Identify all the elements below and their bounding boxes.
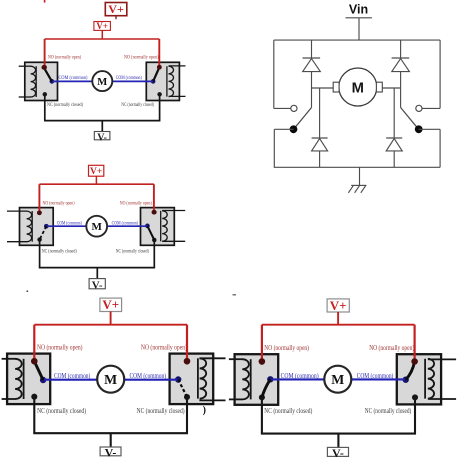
svg-text:V+: V+ (96, 21, 108, 31)
wire V+ to K8 NO (414, 325, 416, 362)
relay K8 switch arm (406, 362, 415, 380)
wire to V- D3 (110, 433, 112, 447)
wire V+ drop D1 (101, 30, 103, 39)
Vin terminal bar (346, 17, 372, 19)
motor M2 (86, 216, 107, 237)
wire K1 NC down (44, 94, 46, 120)
wire motor M3 to K6 COM (124, 379, 177, 381)
label K6 COM (130, 373, 167, 380)
svg-text:NO (normally open): NO (normally open) (48, 54, 81, 61)
relay K2 NC contact (157, 92, 161, 96)
svg-text:NC (normally closed): NC (normally closed) (121, 101, 154, 108)
relay K7 COM contact (267, 376, 273, 382)
node Vin terminal (349, 3, 368, 17)
wire bottom rail D4 (261, 433, 416, 435)
motor M5 right brush (376, 82, 382, 92)
wire V+ to K7 NO (261, 325, 263, 362)
diode D4 (lower right) (386, 138, 402, 151)
svg-text:COM (common): COM (common) (59, 74, 88, 81)
wire K4 NC down (153, 240, 155, 268)
relay K6 switch arm (178, 380, 187, 398)
svg-text:COM (common): COM (common) (116, 74, 142, 81)
svg-text:M: M (331, 372, 344, 387)
wire top rail D1 (45, 38, 160, 40)
relay K2 switch arm (153, 67, 159, 81)
label K5 NC (37, 408, 86, 415)
svg-text:V+: V+ (330, 298, 347, 313)
relay K8 coil (425, 359, 456, 399)
wire diode D3 to bottom rail (319, 151, 321, 167)
relay K5 coil (2, 359, 24, 399)
svg-text:V+: V+ (108, 2, 124, 16)
relay K1 switch arm (44, 67, 52, 81)
label K8 NO (369, 345, 414, 352)
wire V+ drop D4 (337, 312, 339, 325)
label K8 COM (357, 373, 394, 380)
relay K8 COM contact (403, 377, 409, 383)
relay K2 body (146, 62, 179, 100)
relay K6 COM contact (175, 376, 181, 382)
relay K5 NO contact (31, 358, 37, 364)
wire V+ to K2 NO (158, 39, 160, 67)
relay K5 switch arm (34, 361, 43, 380)
svg-text:NO (normally open): NO (normally open) (43, 200, 75, 207)
relay K8 NO contact (over wire) (411, 358, 417, 364)
relay K7 switch arm (262, 379, 270, 397)
svg-text:M: M (97, 77, 107, 88)
supply label V- D3 (100, 446, 121, 460)
relay K2 COM contact (151, 79, 156, 84)
label K4 NO (120, 200, 152, 207)
svg-text:V-: V- (92, 279, 103, 291)
relay K4 COM contact (145, 224, 150, 229)
wire V+ to K6 NO (186, 325, 188, 362)
wire diode D2 to node B (400, 72, 402, 108)
relay K1 COM contact (50, 79, 55, 84)
diode D4 branch (lower right) (393, 88, 395, 138)
wire K7 NC down (261, 397, 263, 433)
svg-text:NC (normally closed): NC (normally closed) (42, 248, 77, 255)
relay K7 NC contact (259, 394, 265, 400)
switch S1 arm (295, 108, 312, 129)
relay K6 NO contact (over wire) (184, 358, 190, 364)
label K4 NC (116, 248, 149, 255)
relay K1 NC contact (43, 92, 47, 96)
relay K1 body (25, 62, 58, 100)
svg-text:V-: V- (97, 132, 107, 143)
wire V+ drop D2 (95, 176, 97, 184)
wire V+ drop D3 (110, 312, 112, 325)
wire K2 NC down (159, 94, 161, 120)
wire left outer upper (274, 40, 291, 108)
wire K3 COM to motor M2 (47, 225, 86, 227)
label K2 COM (116, 74, 142, 81)
wire S2 lower contact to right outer (419, 129, 440, 167)
wire V+ to K1 NO (44, 39, 46, 67)
wire K5 COM to motor M3 (44, 379, 97, 381)
wire motor right terminal to node B (382, 87, 400, 89)
svg-text:NO (normally open): NO (normally open) (120, 200, 152, 207)
diode D1 (upper left) (303, 58, 321, 72)
relay K3 switch arm (40, 226, 47, 239)
relay K8 NO contact (411, 358, 417, 364)
relay K3 NO contact (over wire) (37, 210, 42, 215)
wire top rail D2 (39, 183, 153, 185)
label K5 NO (37, 345, 83, 352)
supply label V+ D4 (327, 298, 349, 313)
wire right inner upper (400, 40, 402, 58)
motor M5 (339, 68, 377, 106)
tiny crop speck (26, 290, 28, 292)
relay K7 NO contact (259, 358, 265, 364)
relay K4 NO contact (152, 210, 157, 215)
wire bottom rail D2 (39, 267, 155, 269)
wire K3 NC down (39, 240, 41, 268)
relay K8 NC contact (412, 394, 418, 400)
wire stub below outer V+ (115, 16, 117, 20)
relay K6 body (170, 354, 214, 405)
relay K7 NO contact (over wire) (259, 358, 265, 364)
svg-text:M: M (104, 372, 117, 387)
wire to V- D2 (96, 268, 98, 279)
relay K7 coil (229, 359, 251, 399)
supply label V- D2 (89, 279, 105, 292)
relay K5 COM contact (40, 377, 46, 383)
label K2 NO (124, 54, 159, 61)
svg-text:NO (normally open): NO (normally open) (124, 54, 159, 61)
relay K6 NC contact (184, 394, 190, 400)
relay K1 coil (19, 66, 37, 97)
wire K1 COM to motor M1 (53, 80, 93, 82)
relay K4 body (141, 208, 175, 246)
relay K4 coil (161, 211, 186, 242)
label K3 NC (42, 248, 77, 255)
motor M4 (324, 366, 351, 393)
label K4 COM (112, 220, 139, 227)
wire to V- D4 (337, 434, 339, 448)
svg-text:NC (normally closed): NC (normally closed) (47, 101, 83, 108)
svg-text:NO (normally open): NO (normally open) (369, 345, 414, 352)
motor M5 left brush (333, 82, 339, 92)
wire K8 NC down (414, 397, 416, 433)
label K1 NO (48, 54, 81, 61)
svg-text:NC (normally closed): NC (normally closed) (264, 408, 312, 415)
wire top rail D5 (274, 39, 440, 41)
label K8 NC (365, 408, 412, 415)
wire right outer upper (422, 40, 440, 108)
label K2 NC (121, 101, 154, 108)
wire left inner upper (311, 40, 313, 58)
wire K6 NC down (186, 397, 188, 433)
label K1 COM (59, 74, 88, 81)
wire Vin down (358, 18, 360, 40)
relay K3 coil (7, 211, 32, 242)
wire diode D1 to motor node A (311, 72, 313, 108)
svg-text:V-: V- (105, 446, 117, 460)
svg-text:M: M (92, 221, 103, 233)
relay K1 NO contact (over wire) (42, 65, 47, 70)
wire S1 lower contact to left outer (274, 129, 293, 167)
node V+ terminal (outer) (105, 2, 127, 16)
svg-text:NC (normally closed): NC (normally closed) (116, 248, 149, 255)
wire V+ to K5 NO (33, 325, 35, 362)
svg-text:NO (normally open): NO (normally open) (264, 345, 309, 352)
relay K8 body (397, 354, 441, 404)
switch S2 lower contact (closed) (415, 125, 423, 133)
ground (348, 185, 366, 192)
label K7 NO (264, 345, 309, 352)
wire K7 COM to motor M4 (271, 378, 324, 380)
supply label V+ D2 (89, 165, 104, 177)
diode D3 (lower left) (312, 138, 328, 151)
diode D2 (upper right) (392, 58, 410, 72)
wire bottom rail D1 (44, 120, 160, 122)
wire to ground (359, 167, 361, 185)
label K3 NO (43, 200, 75, 207)
svg-text:V-: V- (332, 446, 344, 460)
tiny crop mark D4 (233, 294, 237, 296)
svg-text:NO (normally open): NO (normally open) (141, 345, 187, 352)
wire K5 NC down (33, 397, 35, 434)
supply label V- D1 (94, 132, 110, 144)
relay K2 coil (167, 66, 186, 97)
relay K5 NO contact (over wire) (31, 358, 37, 364)
relay K4 NO contact (over wire) (152, 210, 157, 215)
relay K4 NC contact (152, 238, 156, 242)
label K7 COM (281, 373, 319, 380)
wire V+ to K4 NO (153, 184, 155, 212)
svg-text:NC (normally closed): NC (normally closed) (137, 408, 185, 415)
wire top rail D4 (262, 324, 415, 326)
svg-text:): ) (203, 405, 206, 416)
relay K3 NC contact (37, 237, 41, 241)
wire V+ to K3 NO (38, 184, 40, 212)
switch S1 lower contact (closed) (290, 125, 298, 133)
label K5 COM (54, 373, 90, 380)
switch S1 upper contact (291, 105, 297, 111)
relay K3 COM contact (44, 224, 49, 229)
label K7 NC (264, 408, 312, 415)
relay K4 switch arm (147, 226, 154, 240)
tiny red crop mark top-left (44, 0, 46, 3)
svg-text:Vin: Vin (349, 3, 368, 17)
label K3 COM (57, 220, 82, 227)
stray parenthesis mark (203, 405, 206, 416)
label K1 NC (47, 101, 83, 108)
relay K1 NO contact (41, 65, 46, 70)
wire motor M2 to K4 COM (107, 225, 147, 227)
switch S2 upper contact (416, 105, 422, 111)
supply label V- D4 (327, 446, 348, 460)
supply label V+ D1 (94, 21, 111, 31)
wire to V- D1 (101, 121, 103, 132)
relay K6 coil (198, 358, 226, 400)
svg-text:M: M (352, 80, 364, 96)
wire bottom rail D5 (274, 166, 440, 168)
motor M3 (97, 366, 124, 393)
label K6 NO (141, 345, 187, 352)
relay K7 body (235, 354, 279, 405)
switch S2 arm (401, 108, 418, 129)
wire motor M1 to K2 COM (112, 80, 152, 82)
svg-text:V+: V+ (102, 297, 119, 312)
svg-text:V+: V+ (90, 167, 102, 177)
diode D3 branch (lower left) (319, 88, 321, 138)
relay K3 NO contact (37, 210, 42, 215)
svg-text:NO (normally open): NO (normally open) (37, 345, 83, 352)
relay K5 body (7, 354, 50, 405)
label K6 NC (137, 408, 185, 415)
wire bottom rail D3 (33, 432, 188, 434)
supply label V+ D3 (100, 297, 122, 312)
wire top rail D3 (34, 324, 187, 326)
wire motor M4 to K8 COM (351, 378, 405, 380)
wire node A to motor left terminal (312, 87, 334, 89)
relay K2 NO contact (157, 65, 162, 70)
motor M1 (92, 71, 112, 91)
relay K2 NO contact (over wire) (157, 65, 162, 70)
relay K6 NO contact (184, 358, 190, 364)
svg-text:NC (normally closed): NC (normally closed) (365, 408, 412, 415)
svg-text:NC (normally closed): NC (normally closed) (37, 408, 86, 415)
relay K3 body (20, 208, 54, 246)
wire diode D4 to bottom rail (393, 151, 395, 167)
relay K5 NC contact (31, 394, 37, 400)
